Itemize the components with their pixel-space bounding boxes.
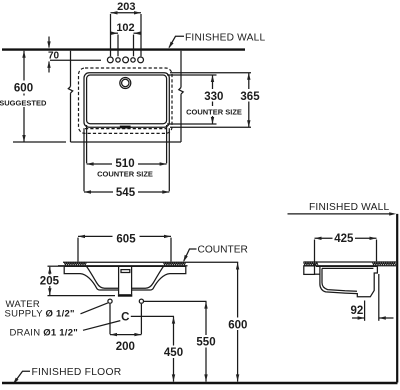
wire: finished wall line (plan) (2, 48, 245, 50)
dimension 102 (faucet hole spread) (111, 22, 141, 56)
svg-text:545: 545 (116, 187, 136, 199)
svg-text:FINISHED WALL: FINISHED WALL (309, 202, 389, 213)
basin inner wall (front) (87, 266, 119, 288)
node: FINISHED WALL label + leader (plan) (167, 33, 265, 50)
wire: rim inner line (side) (322, 267, 373, 269)
dimension 545 (84, 186, 169, 199)
dimension 605 (78, 232, 171, 262)
hidden line under rim (dashed, plan bottom) (85, 128, 167, 130)
wire: extension line for 600 suggested (13, 141, 66, 143)
svg-text:COUNTER SIZE: COUNTER SIZE (186, 108, 242, 117)
svg-text:600: 600 (14, 83, 33, 95)
wire: counter left edge (plan) with break (68, 51, 72, 142)
dimension 92 (351, 274, 394, 321)
dimension 450 (162, 316, 186, 381)
basin outer rim (plan) (84, 73, 169, 127)
label COUNTER SIZE (plan right) (186, 106, 243, 117)
faucet hole 1 (107, 57, 113, 63)
svg-text:600: 600 (228, 319, 247, 331)
basin rim top line (side) (316, 265, 377, 267)
svg-text:DRAIN Ø1 1/2": DRAIN Ø1 1/2" (10, 328, 78, 339)
svg-text:550: 550 (196, 337, 215, 349)
dimension 365 (239, 73, 262, 127)
label DRAIN (10, 321, 121, 339)
counter cut-out edge (plan) (87, 75, 167, 124)
svg-text:205: 205 (40, 276, 60, 288)
faucet hole 5 (138, 57, 144, 63)
wire: finished floor line (2, 382, 398, 384)
overflow hole (plan) (120, 78, 131, 89)
svg-text:SUPPLY Ø 1/2": SUPPLY Ø 1/2" (5, 308, 75, 319)
dimension 550 (194, 301, 218, 381)
svg-text:COUNTER SIZE: COUNTER SIZE (97, 170, 153, 179)
svg-text:330: 330 (204, 91, 223, 103)
basin hidden rim (dashed, plan) (79, 68, 173, 133)
wire: extension lines for 510/545 (86, 125, 88, 163)
wire: extension for 550 (supply height) (144, 300, 207, 302)
dimension 600 SUGGESTED (left) (0, 51, 47, 142)
wire: finished wall line (side, vertical) (396, 214, 398, 383)
label FINISHED FLOOR + leader (12, 367, 122, 385)
drain mark (plan) (120, 126, 131, 129)
water supply point right (139, 299, 143, 303)
dimension 70 (wall to hole centerline) (47, 37, 59, 73)
basin rim top line (front) (64, 265, 186, 267)
svg-text:425: 425 (334, 233, 354, 245)
counter slab (front section) (58, 262, 188, 266)
wire: counter front edge (plan) (71, 141, 182, 143)
svg-text:FINISHED FLOOR: FINISHED FLOOR (32, 367, 122, 378)
counter slab (side section) (303, 262, 396, 274)
faucet hole 2 (116, 58, 120, 62)
dimension 200 (110, 333, 141, 353)
wire: 200 extension verticals (109, 304, 111, 334)
svg-text:92: 92 (351, 305, 364, 317)
faucet hole 4 (131, 58, 135, 62)
dimension 203 (faucet hole spread) (111, 1, 142, 57)
wire: extension lines for 330/365 (170, 72, 251, 74)
dimension 425 (315, 233, 377, 267)
basin outline (side section) (320, 266, 378, 296)
basin inner wall (side) (322, 268, 357, 291)
wire: counter right edge (plan) with break (179, 51, 183, 142)
svg-text:C: C (121, 311, 129, 323)
dimension 205 (38, 266, 115, 295)
svg-text:COUNTER: COUNTER (198, 245, 248, 256)
svg-text:SUGGESTED: SUGGESTED (0, 98, 47, 107)
svg-text:365: 365 (240, 91, 260, 103)
dimension 510 COUNTER SIZE (87, 158, 167, 179)
wire: wall top line with arrow (288, 212, 397, 215)
svg-text:203: 203 (117, 1, 135, 13)
svg-text:510: 510 (115, 158, 134, 170)
drain centerline symbol C (121, 311, 174, 323)
drain column (front) (118, 266, 132, 296)
label WATER SUPPLY (5, 299, 108, 320)
water supply point left (108, 299, 112, 303)
svg-text:102: 102 (116, 22, 134, 34)
label COUNTER + leader (182, 245, 248, 263)
basin outline (front section) (64, 266, 118, 290)
svg-text:200: 200 (116, 341, 135, 353)
dimension 600 (front right) (226, 262, 251, 381)
faucet hole 3 (center) (123, 57, 129, 63)
dimension 330 COUNTER SIZE (202, 75, 226, 124)
svg-text:450: 450 (164, 347, 183, 359)
wire: faucet hole centerline (50, 59, 101, 61)
svg-text:605: 605 (116, 233, 136, 245)
svg-text:FINISHED WALL: FINISHED WALL (185, 33, 265, 44)
wire: extension line for 600 (counter top) (188, 261, 239, 263)
